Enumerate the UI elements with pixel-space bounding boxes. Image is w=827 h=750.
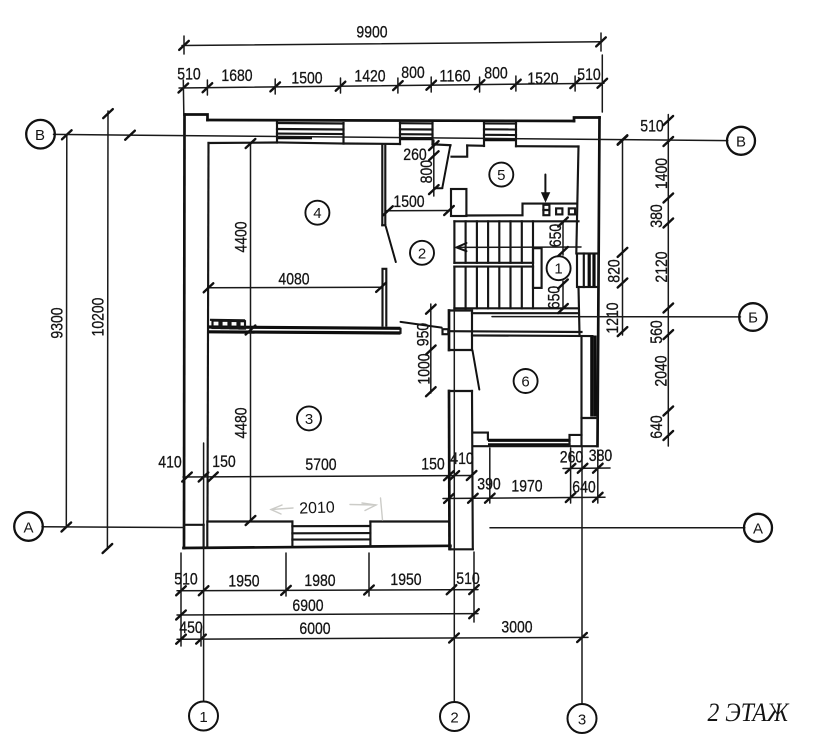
svg-text:650: 650 xyxy=(546,224,565,248)
svg-text:1500: 1500 xyxy=(291,69,322,88)
wall left exterior inner face xyxy=(208,143,209,522)
svg-text:1950: 1950 xyxy=(228,572,259,591)
dim 650 lower vertical line xyxy=(562,281,564,309)
entrance arrow stem xyxy=(544,175,546,193)
vestibule south wall block xyxy=(451,189,466,216)
svg-text:1420: 1420 xyxy=(354,67,385,86)
room circle 1 xyxy=(547,256,571,280)
svg-text:3: 3 xyxy=(305,411,313,428)
vestibule stepped boundary line xyxy=(466,204,576,216)
svg-text:1160: 1160 xyxy=(439,67,470,86)
svg-text:390: 390 xyxy=(477,475,501,494)
window W4 mullions xyxy=(583,254,585,288)
svg-text:А: А xyxy=(23,519,33,536)
window W1 top wall left jamb xyxy=(276,123,278,143)
window W2 top wall jambs xyxy=(399,123,401,144)
svg-text:510: 510 xyxy=(174,570,198,589)
porch wall column right face xyxy=(471,311,473,351)
axis A horizontal line left xyxy=(42,526,184,529)
door D6 leaf room 6 xyxy=(473,351,480,390)
stair newel rectangle xyxy=(533,248,542,288)
partition room4-room2 xyxy=(381,145,383,225)
wall left exterior outer face xyxy=(183,115,186,549)
svg-text:450: 450 xyxy=(179,618,203,637)
svg-text:Б: Б xyxy=(748,310,758,327)
svg-text:9300: 9300 xyxy=(48,307,67,338)
door D2 jamb square xyxy=(443,329,449,334)
svg-text:1520: 1520 xyxy=(527,69,558,88)
wall top inner face segment 1 xyxy=(209,141,278,144)
svg-text:9900: 9900 xyxy=(356,23,387,42)
svg-text:4400: 4400 xyxy=(232,221,251,252)
bottom row1 extension verticals xyxy=(181,552,474,646)
axis B circle right xyxy=(727,127,755,155)
svg-text:1500: 1500 xyxy=(393,192,424,211)
axis Б horizontal line xyxy=(492,316,741,318)
wall right inner face upper xyxy=(576,147,578,254)
wall bottom exterior outer face xyxy=(184,546,451,548)
axis 1 vertical line xyxy=(203,443,205,701)
threshold square 3 xyxy=(569,208,575,214)
wall top inner face segment 4 xyxy=(467,144,484,146)
axis B circle left xyxy=(26,120,55,149)
dim 4400-4480 vertical line xyxy=(250,143,252,521)
stair direction arrow line xyxy=(458,246,582,248)
svg-text:В: В xyxy=(736,133,746,150)
window W2 sill lines xyxy=(400,122,433,124)
svg-text:560: 560 xyxy=(647,320,666,344)
window W6 room 6 east dark glazing xyxy=(590,336,593,417)
window W3 sill lines xyxy=(484,122,516,124)
dim 260-380 room6 line xyxy=(563,467,610,470)
stair lower flight treads xyxy=(454,267,533,309)
axis 2 circle xyxy=(440,702,469,731)
window W1 top wall right jamb xyxy=(342,123,344,144)
wall top-left corner pilaster xyxy=(185,115,208,121)
door D5 swing end tick xyxy=(435,187,443,189)
svg-text:1210: 1210 xyxy=(603,302,622,333)
wall top inner face segment 3 xyxy=(433,143,451,146)
dim 410-150 left line xyxy=(183,476,472,478)
svg-text:1000: 1000 xyxy=(415,353,434,384)
svg-text:380: 380 xyxy=(589,446,613,465)
axis 3 vertical line xyxy=(581,446,583,704)
svg-text:800: 800 xyxy=(401,63,425,82)
dim 10200 vertical line xyxy=(106,111,109,549)
porch wall column bottom cap xyxy=(450,548,472,550)
svg-text:1980: 1980 xyxy=(304,571,335,590)
window W4 stair window frame xyxy=(577,254,599,288)
dim extension verticals room6 xyxy=(490,448,598,503)
pencil handwriting 2010 xyxy=(271,498,383,520)
room circle 4 xyxy=(305,201,329,225)
stair mid landing separator double line xyxy=(454,262,533,264)
radiator on wall room4-room3 xyxy=(211,319,244,322)
dim row2 extension verticals xyxy=(183,55,602,113)
axis 3 circle xyxy=(568,704,597,733)
wall right inner face mid xyxy=(579,287,580,334)
axis B right ticks xyxy=(618,135,628,144)
svg-text:950: 950 xyxy=(414,323,433,347)
svg-text:510: 510 xyxy=(177,65,201,84)
svg-text:4: 4 xyxy=(313,205,321,222)
svg-text:1: 1 xyxy=(199,709,207,726)
wall bottom inner face segment 1 xyxy=(208,520,293,522)
svg-text:150: 150 xyxy=(421,455,445,474)
wall top inner face segment 2 xyxy=(344,142,401,145)
axis B tick on 9300 line xyxy=(125,131,135,140)
dim 950-1000 vertical line xyxy=(430,304,432,393)
svg-text:6: 6 xyxy=(521,374,529,391)
interior wall room4-room3 thick band xyxy=(209,327,401,328)
svg-text:3: 3 xyxy=(578,712,586,729)
axis 2 vertical line xyxy=(453,310,455,702)
svg-text:650: 650 xyxy=(544,286,563,310)
door D2 leaf hall-room3 xyxy=(401,322,442,328)
wall bottom corner block lines xyxy=(184,524,204,526)
threshold square 2 xyxy=(556,208,562,214)
svg-text:640: 640 xyxy=(647,415,666,439)
row3 extension vertical xyxy=(200,629,202,646)
partition T-stub room2-room3 xyxy=(383,269,387,326)
svg-text:2040: 2040 xyxy=(652,355,671,386)
svg-text:2120: 2120 xyxy=(652,251,671,282)
svg-text:3000: 3000 xyxy=(501,618,532,637)
wall top exterior outer face xyxy=(208,120,575,121)
room 6 north wall line xyxy=(472,334,592,337)
svg-text:1: 1 xyxy=(554,261,562,278)
room 6 south sill dark lines xyxy=(488,439,571,442)
right chain A line 820-1210 xyxy=(622,140,624,335)
svg-text:380: 380 xyxy=(647,204,666,228)
svg-text:5700: 5700 xyxy=(305,455,336,474)
dim 9900 extension verticals xyxy=(183,36,185,54)
svg-text:6900: 6900 xyxy=(292,596,323,615)
window W5 bottom wall jambs xyxy=(291,522,293,546)
svg-text:1950: 1950 xyxy=(390,570,421,589)
door D5 leaf to room 5 xyxy=(442,145,450,187)
right chain B line 1400-380-2120-560-2040-640 xyxy=(667,115,669,447)
svg-text:4080: 4080 xyxy=(278,270,309,289)
porch wall column left face xyxy=(448,311,451,351)
svg-text:510: 510 xyxy=(456,569,480,588)
wall right exterior outer face xyxy=(598,118,600,447)
svg-text:800: 800 xyxy=(484,64,508,83)
porch wall column top caps xyxy=(449,309,472,311)
svg-text:260: 260 xyxy=(560,448,584,467)
entrance arrow head xyxy=(541,192,550,202)
dim 650 upper vertical line xyxy=(562,222,564,256)
axis A horizontal line right xyxy=(490,527,745,529)
axis A circle left xyxy=(14,512,43,541)
svg-text:А: А xyxy=(753,521,763,538)
window W3 dark glazing segment xyxy=(485,138,516,141)
window W3 top wall jambs xyxy=(483,123,485,146)
threshold double square xyxy=(543,205,549,210)
wall bottom inner face segment 2 xyxy=(370,520,449,522)
room circle 5 xyxy=(489,163,513,187)
svg-text:800: 800 xyxy=(417,160,436,184)
dim 390-1970-640 line xyxy=(443,497,605,498)
stair top riser line xyxy=(454,220,578,222)
window W2 dark glazing segment xyxy=(401,137,433,140)
svg-text:2 ЭТАЖ: 2 ЭТАЖ xyxy=(708,698,790,727)
svg-text:150: 150 xyxy=(212,452,236,471)
room circle 3 xyxy=(297,406,321,430)
svg-text:2010: 2010 xyxy=(299,499,335,517)
landing south wall line xyxy=(450,330,582,333)
svg-text:2: 2 xyxy=(450,710,458,727)
wall top-right corner pilaster xyxy=(574,118,600,122)
svg-text:1680: 1680 xyxy=(221,66,252,85)
dim 9300 vertical line xyxy=(65,135,68,527)
svg-text:820: 820 xyxy=(605,259,624,283)
stair upper flight treads xyxy=(454,221,533,262)
svg-text:1400: 1400 xyxy=(652,158,671,189)
bottom row2 line 6900 xyxy=(177,614,478,615)
svg-text:410: 410 xyxy=(158,453,182,472)
svg-text:5: 5 xyxy=(497,167,505,184)
dim 260-800 vertical line xyxy=(433,140,435,196)
dim row2 ticks xyxy=(179,84,189,93)
door D4 leaf room 4 xyxy=(386,227,396,263)
room 6 east inner face xyxy=(580,337,582,418)
room circle 2 xyxy=(410,241,434,265)
stair direction arrowhead xyxy=(457,243,467,251)
room 6 south outer face xyxy=(473,445,598,447)
axis A circle right xyxy=(744,514,772,542)
svg-text:510: 510 xyxy=(640,117,664,136)
svg-text:640: 640 xyxy=(572,478,596,497)
room circle 6 xyxy=(514,369,538,393)
svg-text:4480: 4480 xyxy=(232,407,251,438)
svg-text:510: 510 xyxy=(577,65,601,84)
wall top inner face segment 5 xyxy=(516,145,579,147)
bottom row1 line xyxy=(177,590,478,591)
svg-text:1970: 1970 xyxy=(511,477,542,496)
dim 4080 line xyxy=(208,286,382,289)
stair bottom edge double line xyxy=(454,307,578,309)
axis 1 circle xyxy=(189,702,218,731)
window W1 dark glazing segment xyxy=(278,136,312,139)
axis B horizontal line xyxy=(54,134,728,140)
bottom row3 line 450-6000-3000 xyxy=(177,637,588,639)
window W5 sill lines xyxy=(292,525,370,527)
room 6 SE corner block xyxy=(582,418,598,446)
dim 9900 line xyxy=(182,42,602,46)
svg-text:10200: 10200 xyxy=(89,298,108,337)
window W1 sill lines xyxy=(277,122,344,125)
svg-text:2: 2 xyxy=(418,245,426,262)
room 6 south sill step left xyxy=(473,433,488,440)
svg-text:В: В xyxy=(35,127,45,144)
niche recess at room 5 door xyxy=(452,146,468,157)
axis Б circle xyxy=(739,303,767,331)
room 6 south sill step right xyxy=(570,435,582,445)
svg-text:6000: 6000 xyxy=(299,619,330,638)
dim 1500 hall line xyxy=(387,210,451,212)
dim row2 line xyxy=(179,83,604,88)
